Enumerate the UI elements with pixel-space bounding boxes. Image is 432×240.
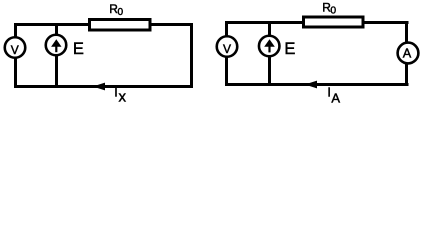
- svg-text:E: E: [284, 40, 295, 58]
- wire right vertical upper (top wire to ammeter A): [405, 21, 408, 43]
- source E1 circle: [46, 35, 67, 56]
- svg-text:0: 0: [118, 7, 124, 18]
- source E2 circle: [259, 36, 280, 57]
- resistor R0 body (left circuit): [90, 20, 151, 31]
- voltmeter V2 circle: [217, 36, 238, 57]
- svg-text:I: I: [114, 86, 117, 100]
- label R0 (left circuit): [109, 2, 123, 18]
- wire left vertical upper stub (top wire to voltmeter V2): [225, 21, 228, 36]
- voltmeter V1 circle: [5, 37, 26, 58]
- svg-text:A: A: [403, 46, 412, 60]
- svg-text:I: I: [327, 86, 330, 100]
- svg-text:V: V: [11, 43, 19, 57]
- label IA: [327, 86, 340, 106]
- wire right vertical lower stub (ammeter A to bottom wire): [405, 64, 408, 86]
- resistor R0 body (right circuit): [304, 17, 364, 27]
- wire left vertical lower stub (voltmeter V to bottom wire): [14, 58, 17, 88]
- ammeter A1 circle: [398, 43, 419, 64]
- svg-text:x: x: [119, 88, 127, 105]
- source E2 arrow (up): [264, 39, 275, 52]
- wire top-right horizontal segment (left circuit): [150, 23, 193, 26]
- wire source E2 upper stub: [268, 21, 271, 36]
- wire bottom horizontal (right circuit): [225, 83, 409, 86]
- wire top-right horizontal segment (right circuit): [363, 21, 409, 24]
- wire bottom horizontal (left circuit): [14, 85, 193, 88]
- wire left vertical lower stub (voltmeter V2 to bottom wire): [225, 57, 228, 86]
- wire left vertical upper stub (top wire to voltmeter V): [14, 23, 17, 37]
- wire top-left horizontal segment (right circuit): [225, 21, 304, 24]
- source E1 arrow (up): [51, 39, 61, 52]
- svg-text:0: 0: [330, 6, 336, 17]
- svg-text:V: V: [223, 42, 231, 56]
- wire source E upper stub: [55, 23, 58, 36]
- svg-text:E: E: [73, 40, 84, 58]
- svg-text:A: A: [331, 91, 340, 106]
- label Ix: [114, 86, 126, 106]
- wire source E2 lower stub: [268, 57, 271, 86]
- wire top-left horizontal segment (left circuit): [14, 23, 90, 26]
- current arrow IA (arrowhead on bottom wire, pointing left): [305, 81, 317, 89]
- wire source E lower stub: [55, 55, 58, 88]
- wire right vertical (left circuit): [190, 23, 193, 88]
- label R0 (right circuit): [322, 1, 336, 17]
- current arrow Ix (arrowhead on bottom wire, pointing left): [93, 83, 105, 91]
